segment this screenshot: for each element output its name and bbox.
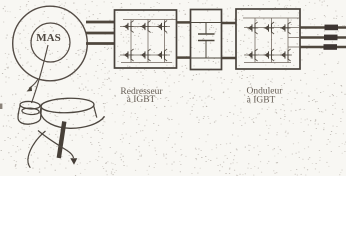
svg-text:à IGBT: à IGBT [127,95,156,105]
svg-text:MAS: MAS [36,32,60,44]
svg-text:à IGBT: à IGBT [247,96,276,106]
